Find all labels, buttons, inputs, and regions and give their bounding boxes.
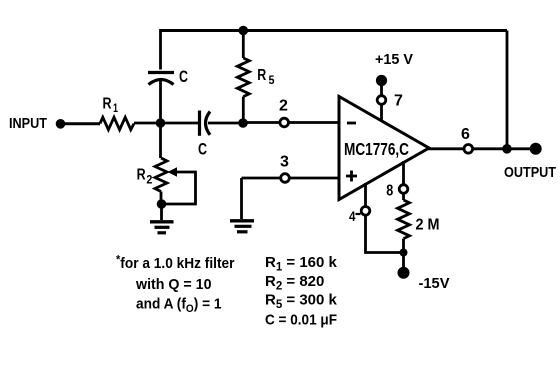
wire to ground 1 [160, 204, 163, 220]
wire node B to pin 2 [243, 121, 280, 124]
wire op-amp bottom edge to pin 4 [364, 183, 367, 207]
pin 6 terminal circle [464, 145, 473, 154]
wire pin 3 down to ground 2 [240, 178, 243, 219]
svg-text:2: 2 [279, 98, 288, 115]
svg-text:C = 0.01 μF: C = 0.01 μF [265, 312, 337, 329]
wire pin 2 to op-amp [289, 121, 340, 124]
node A junction [156, 118, 166, 128]
capacitor C (top) [148, 73, 174, 85]
wire R2 bottom [160, 192, 163, 205]
pin 7 terminal circle [377, 96, 386, 105]
op-amp U1 MC1776,C [339, 97, 429, 200]
wire pin 3 to op-amp [290, 177, 340, 180]
wire node A to R2 [159, 123, 162, 158]
node B junction [238, 118, 248, 128]
svg-text:2 M: 2 M [416, 217, 440, 234]
potentiometer R2 [155, 158, 167, 192]
svg-text:C: C [198, 140, 207, 159]
wire pin 4 down and right to -15V node [366, 215, 404, 253]
wire right feedback vertical [506, 31, 509, 150]
wire op-amp output to pin 6 [428, 147, 464, 150]
svg-text:INPUT: INPUT [9, 115, 47, 132]
svg-text:6: 6 [461, 126, 470, 143]
svg-text:-15V: -15V [419, 275, 450, 292]
pin 3 terminal circle [281, 174, 290, 183]
wire left branch top [159, 29, 162, 70]
resistor R5 [237, 58, 249, 97]
wire left branch bottom [159, 80, 162, 124]
svg-text:*for a 1.0 kHz filter: *for a 1.0 kHz filter [116, 253, 235, 273]
svg-text:3: 3 [280, 154, 289, 171]
wire wiper to bottom of R2 [162, 172, 196, 204]
svg-text:C: C [179, 67, 188, 86]
op-amp plus sign [346, 171, 357, 182]
wire input to R1 [60, 122, 100, 125]
resistor 2M [398, 200, 410, 239]
wire pin 6 to output [473, 147, 536, 150]
svg-text:5: 5 [269, 73, 275, 87]
node R2 bottom junction [157, 199, 167, 209]
wire R1 to node A [134, 122, 161, 125]
wire top feedback [160, 29, 507, 32]
wire 2M to -15V node [402, 239, 405, 268]
capacitor C (series) [200, 111, 211, 136]
ground (pin 3) [230, 221, 254, 232]
node +15V supply dot [376, 75, 387, 86]
svg-text:1: 1 [113, 101, 118, 115]
wire R5 to node B [242, 97, 245, 123]
op-amp minus sign [347, 122, 356, 125]
wiper arrow of R2 [168, 167, 178, 176]
node -15V supply dot [398, 267, 410, 279]
svg-text:and A (fO) = 1: and A (fO) = 1 [136, 296, 222, 316]
node top junction R5 [239, 26, 249, 36]
svg-text:8: 8 [386, 182, 393, 199]
resistor R1 [100, 117, 134, 129]
svg-text:+15 V: +15 V [375, 52, 413, 68]
svg-text:OUTPUT: OUTPUT [504, 164, 556, 181]
pin 8 terminal circle [399, 185, 408, 194]
node feedback junction [502, 144, 512, 154]
svg-text:2: 2 [146, 173, 152, 187]
wire series cap to node B [208, 122, 243, 125]
ground (below R2) [150, 222, 174, 233]
wire pin 8 to 2M resistor [402, 193, 405, 200]
wire top to R5 [242, 31, 245, 59]
pin 4 terminal circle [361, 207, 370, 216]
wire dash label4 to pin 4 [356, 213, 361, 215]
svg-text:R: R [257, 67, 266, 84]
svg-text:4: 4 [349, 208, 356, 224]
wire pin 7 to op-amp top edge [380, 104, 383, 122]
svg-text:R: R [103, 96, 112, 113]
wire pin 3 horizontal [242, 177, 282, 180]
svg-text:7: 7 [394, 93, 403, 110]
wire op-amp to pin 8 [402, 161, 405, 185]
svg-text:R2 = 820: R2 = 820 [265, 273, 324, 293]
pin 2 terminal circle [280, 118, 289, 127]
svg-text:with Q = 10: with Q = 10 [135, 276, 211, 293]
node junction pin4/2M [400, 249, 408, 257]
svg-text:MC1776,C: MC1776,C [344, 139, 409, 159]
node output terminal [530, 143, 542, 155]
svg-text:R: R [137, 167, 146, 184]
wire +15V to pin 7 [380, 81, 383, 97]
wire node A to series cap [161, 122, 200, 125]
node input terminal [56, 119, 66, 129]
